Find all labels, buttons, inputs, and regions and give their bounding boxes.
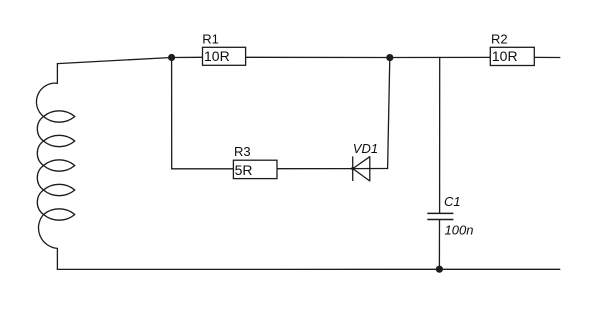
bottom node junction dot (436, 266, 443, 273)
svg-text:R2: R2 (491, 32, 508, 47)
wire bottom rail (57, 268, 559, 270)
resistor R1 (202, 31, 245, 65)
svg-text:10R: 10R (204, 48, 230, 64)
wire C1 bottom plate to bottom rail (438, 220, 440, 270)
wire right riser up to node B (388, 58, 390, 169)
wire top-left from coil to node A (57, 58, 171, 64)
wire node A down to middle branch (171, 58, 173, 169)
wire R3 to diode VD1 (277, 168, 353, 170)
wire diode through to right riser (353, 168, 388, 170)
inductor L1 coil (36, 64, 74, 270)
resistor R2 (490, 32, 534, 66)
svg-text:R3: R3 (234, 144, 251, 159)
svg-text:5R: 5R (235, 162, 253, 178)
wire middle branch to R3 (172, 168, 234, 170)
svg-text:10R: 10R (492, 48, 518, 64)
svg-text:C1: C1 (444, 194, 461, 209)
wire R2 right terminal (534, 56, 560, 58)
svg-text:R1: R1 (202, 31, 219, 46)
wire node A to R1 (172, 56, 203, 58)
wire node B to R2 (through capacitor tap) (390, 56, 491, 58)
wire R1 to node B (246, 56, 390, 58)
diode VD1 (353, 156, 370, 181)
wire capacitor tap down to C1 top plate (439, 57, 441, 213)
diode junction blob (351, 167, 354, 170)
svg-text:100n: 100n (445, 223, 474, 238)
capacitor C1 plates (427, 213, 453, 219)
svg-text:VD1: VD1 (353, 141, 378, 156)
resistor R3 (233, 144, 277, 179)
node A junction dot (168, 54, 175, 61)
node B junction dot (386, 54, 393, 61)
